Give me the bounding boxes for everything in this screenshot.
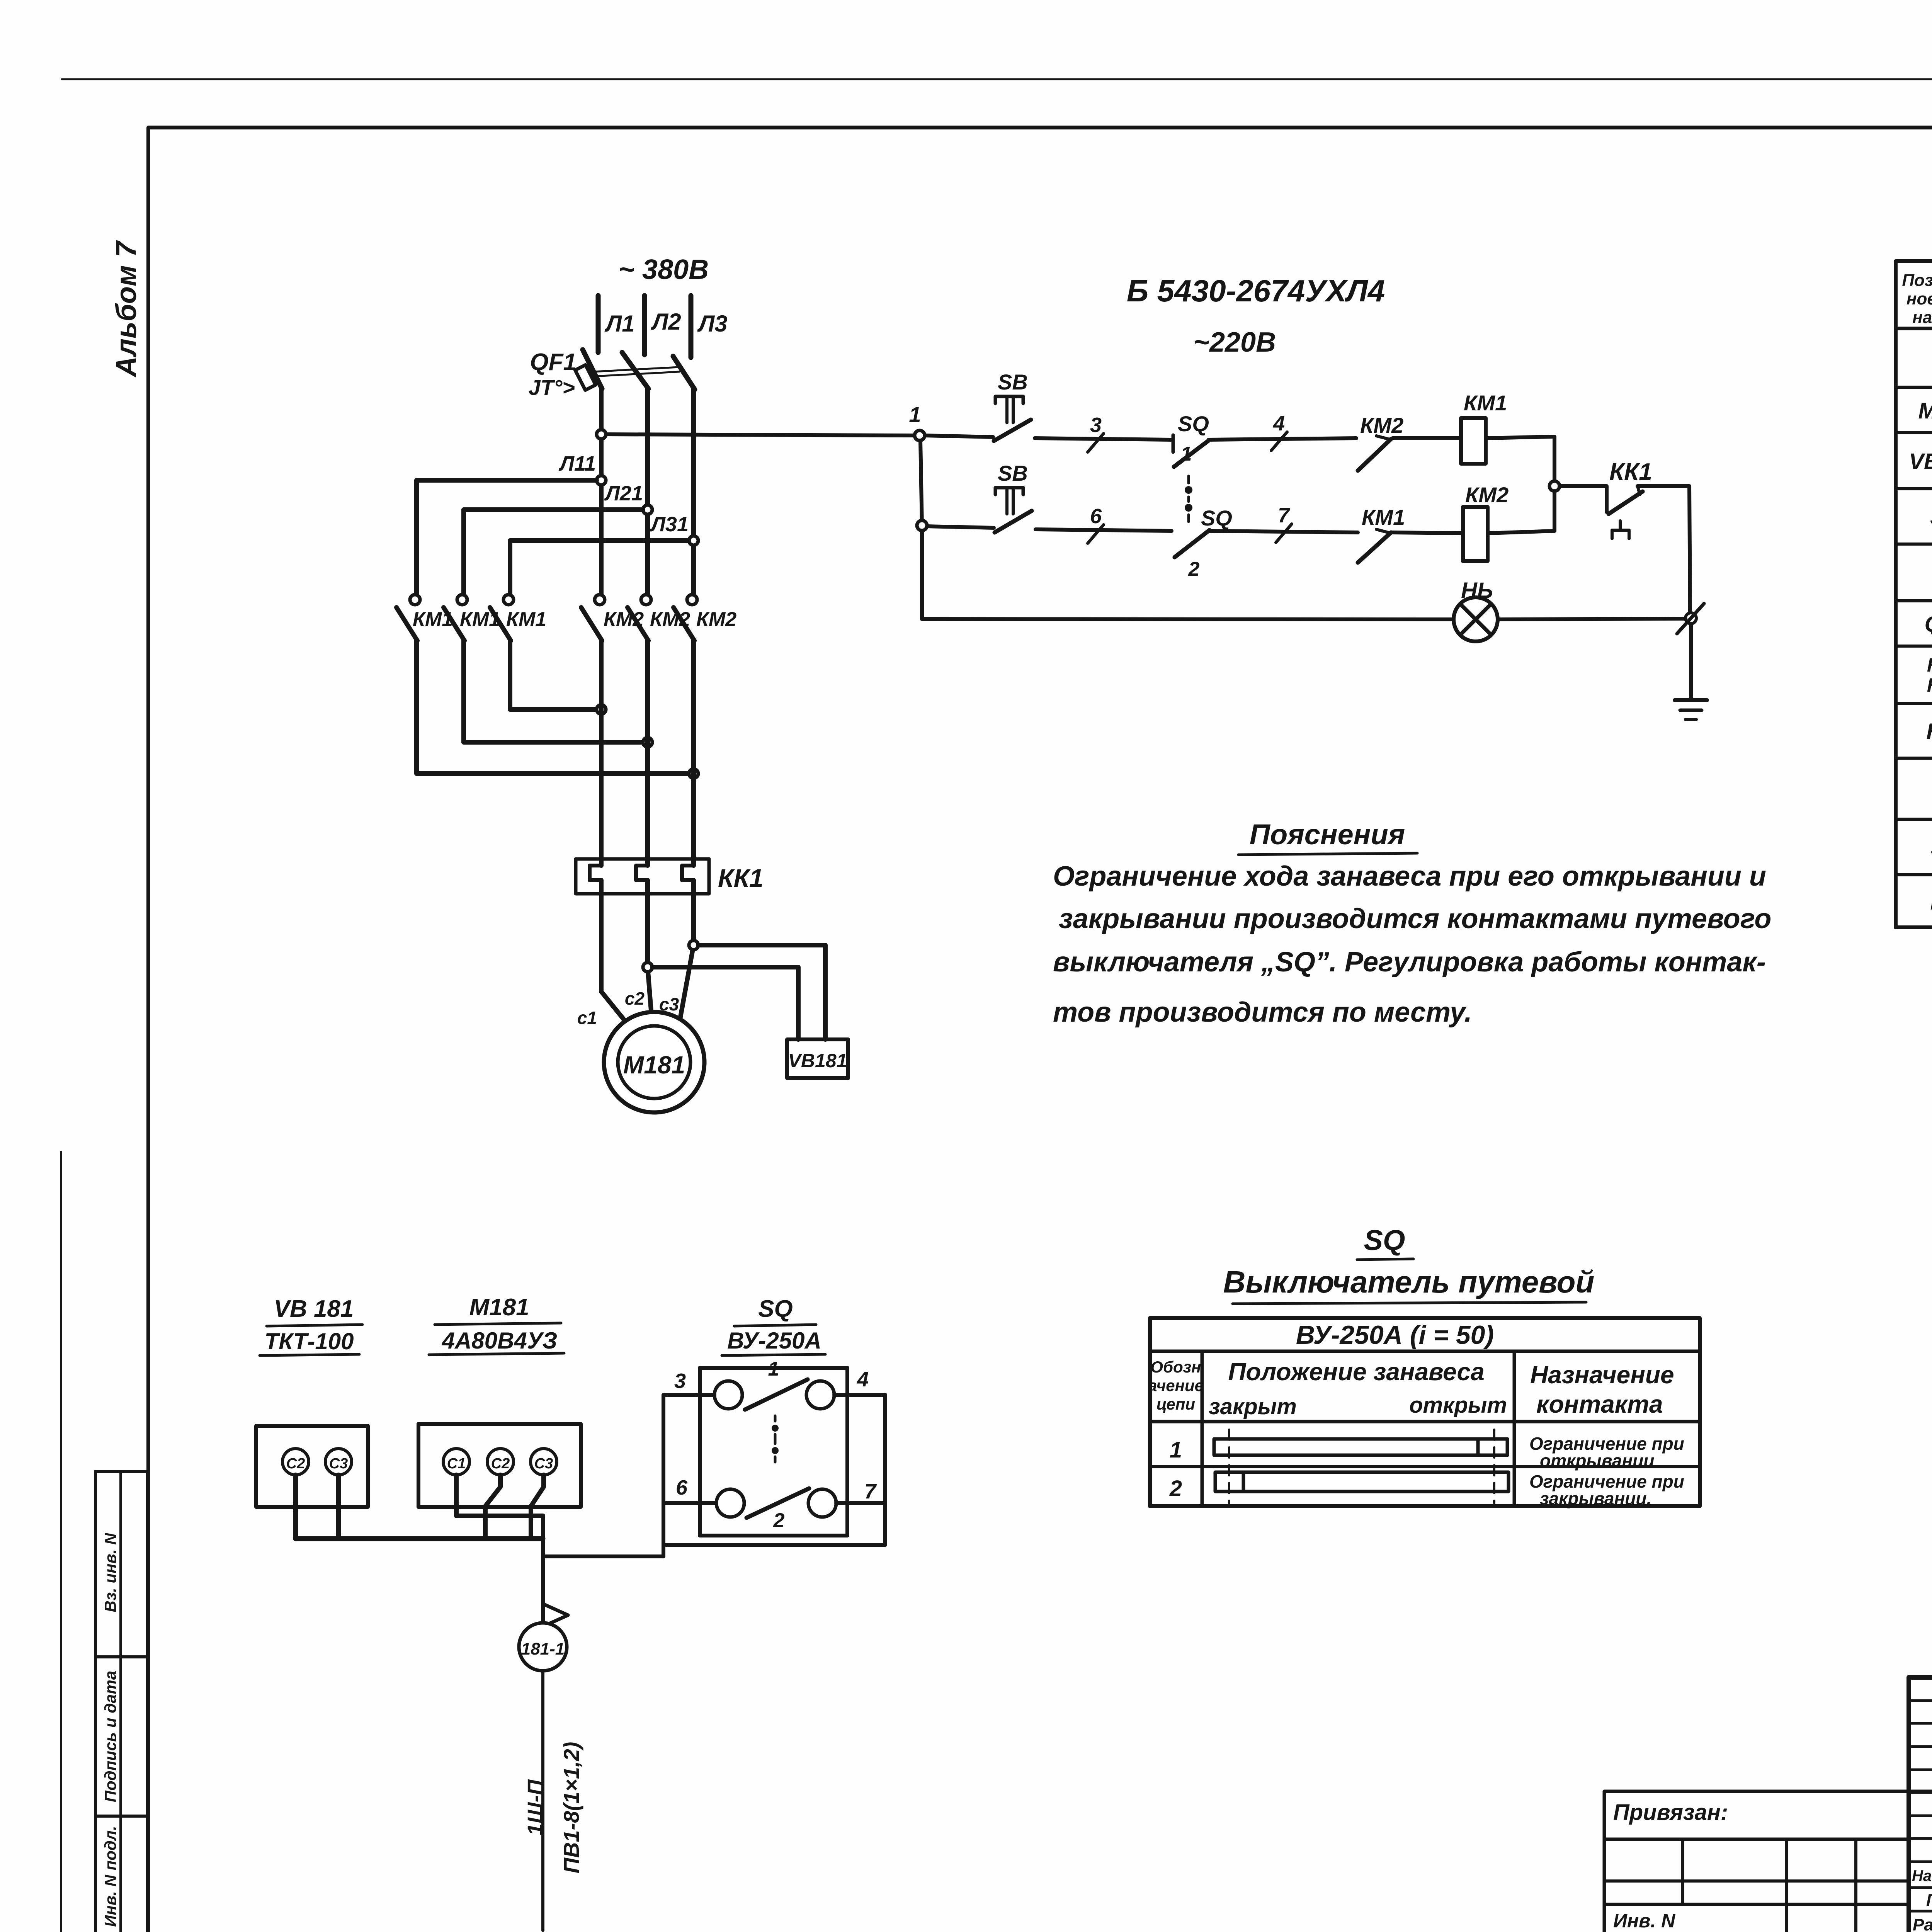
wire brake bus xyxy=(296,1536,543,1541)
wire to control node 1 xyxy=(606,434,915,435)
node on phase 1 to control circuit xyxy=(597,430,606,439)
circuit breaker QF1 pole 1 xyxy=(583,350,602,389)
point 7 slash xyxy=(1276,524,1292,543)
terminal C1 motor xyxy=(443,1449,469,1475)
element table header separator xyxy=(1896,327,1932,330)
svg-text:с2: с2 xyxy=(625,988,645,1009)
svg-text:КМ1: КМ1 xyxy=(413,608,453,631)
control lower node xyxy=(917,520,927,531)
SQ contact box outer loop bottom xyxy=(663,1543,885,1547)
SQ table column line left xyxy=(1201,1351,1204,1506)
point 3 slash xyxy=(1088,434,1104,452)
paper edge top rule xyxy=(62,78,1932,80)
svg-text:Вз. инв. N: Вз. инв. N xyxy=(101,1532,119,1612)
SQ stub 6 xyxy=(663,1501,716,1505)
svg-text:КМ2: КМ2 xyxy=(1927,674,1932,696)
wire main cable vertical xyxy=(541,1516,545,1623)
wire phase 2 vertical xyxy=(645,388,650,595)
paper edge left xyxy=(60,1151,62,1932)
ground symbol xyxy=(1675,698,1707,702)
svg-text:М181: М181 xyxy=(469,1294,529,1321)
SQ contact box outer loop right xyxy=(883,1395,887,1545)
svg-text:VB181: VB181 xyxy=(788,1050,847,1071)
SQ box mechanical link xyxy=(774,1416,777,1421)
circuit breaker QF1 pole 2 xyxy=(622,352,648,389)
SQ table outer frame xyxy=(1150,1318,1700,1506)
lamp rail wire right xyxy=(1498,619,1685,619)
svg-text:С2: С2 xyxy=(491,1456,510,1472)
SQ cam bar row2 xyxy=(1215,1472,1509,1492)
svg-text:КМ2: КМ2 xyxy=(696,608,736,631)
wire phase 1 vertical xyxy=(599,388,604,595)
phase stub Л1 xyxy=(596,296,601,352)
wire motor lead 2 xyxy=(648,880,652,1025)
SQ stub 3 xyxy=(663,1393,714,1397)
cable direction arrow xyxy=(544,1604,568,1615)
wire motor C2 xyxy=(485,1475,500,1537)
element table outer frame xyxy=(1896,261,1932,927)
SQ terminal top right xyxy=(806,1381,834,1409)
svg-text:~220В: ~220В xyxy=(1193,327,1276,358)
svg-text:SQ: SQ xyxy=(758,1296,793,1322)
svg-text:JТ°>: JТ°> xyxy=(529,375,575,400)
svg-text:КМ1: КМ1 xyxy=(460,608,500,631)
svg-text:Л11: Л11 xyxy=(558,452,596,475)
wire brake C2 down xyxy=(293,1475,298,1539)
node Л31 xyxy=(689,536,698,545)
wire brake C3 down xyxy=(336,1475,341,1539)
svg-text:открывании: открывании xyxy=(1540,1451,1654,1471)
attachment box Привязан xyxy=(1604,1791,1932,1839)
wire motor lead 3 xyxy=(679,880,694,1023)
SQ table row divider xyxy=(1150,1465,1700,1468)
svg-text:начение: начение xyxy=(1912,308,1932,327)
svg-text:С3: С3 xyxy=(534,1456,553,1472)
brake terminal box VB181 xyxy=(256,1426,368,1507)
inventory grid xyxy=(1604,1838,1909,1841)
motor M181 outer circle xyxy=(604,1012,704,1112)
wire lower node to SB2 xyxy=(927,526,994,528)
svg-text:Л21: Л21 xyxy=(604,482,643,505)
SQ mechanical link xyxy=(1187,476,1190,483)
svg-text:VB 181: VB 181 xyxy=(1909,449,1932,474)
wire SQ1 to point 4 xyxy=(1209,438,1356,440)
svg-text:SQ: SQ xyxy=(1178,412,1209,436)
svg-text:1: 1 xyxy=(1181,443,1192,465)
svg-text:ТКТ-100: ТКТ-100 xyxy=(264,1328,354,1354)
svg-text:Подпись и дата: Подпись и дата xyxy=(101,1671,119,1802)
SB bottom contact blade xyxy=(995,511,1032,532)
svg-text:Привязан:: Привязан: xyxy=(1613,1800,1728,1825)
svg-text:181-1: 181-1 xyxy=(521,1639,565,1658)
svg-text:С1: С1 xyxy=(447,1456,466,1472)
phase stub Л3 xyxy=(689,296,694,357)
SQ arm contact 2 xyxy=(747,1488,809,1518)
svg-text:Назначение: Назначение xyxy=(1530,1361,1674,1389)
contactor pole KM1 b xyxy=(457,595,467,605)
circuit breaker QF1 pole 3 xyxy=(673,356,695,389)
wire SB to point 3 xyxy=(1035,438,1171,440)
svg-text:ПВ1-8(1×1,2): ПВ1-8(1×1,2) xyxy=(559,1742,583,1874)
svg-text:4А80В4УЗ: 4А80В4УЗ xyxy=(442,1328,558,1354)
title block outer frame xyxy=(1909,1677,1932,1932)
SQ contact box xyxy=(700,1368,847,1536)
svg-text:цепи: цепи xyxy=(1156,1395,1195,1413)
node brake tap phase 2 xyxy=(643,963,652,972)
wire SQ2 to point 7 xyxy=(1209,531,1358,532)
SQ cam dashed guide right xyxy=(1493,1430,1495,1503)
electromagnetic brake VB181 box xyxy=(787,1039,848,1078)
push button SB top xyxy=(995,396,1023,403)
svg-text:VB 181: VB 181 xyxy=(274,1296,354,1322)
wire ground vertical xyxy=(1689,624,1693,700)
svg-text:контакта: контакта xyxy=(1536,1390,1663,1418)
wire Л11 branch xyxy=(417,480,597,595)
wire KK1 to ground branch xyxy=(1638,486,1690,618)
wire to brake VB181 left xyxy=(652,967,798,1039)
svg-text:КМ1: КМ1 xyxy=(506,608,546,631)
svg-text:закрывании производится конт: закрывании производится контактами путев… xyxy=(1059,903,1771,934)
svg-text:QF1: QF1 xyxy=(530,349,577,376)
svg-text:КМ2: КМ2 xyxy=(1465,483,1509,507)
svg-text:SQ: SQ xyxy=(1930,505,1932,530)
wire junction to KK1 contact xyxy=(1560,486,1607,512)
wire KM2 contact to KM1 coil xyxy=(1393,436,1461,440)
terminal C3 brake xyxy=(325,1449,352,1475)
wire motor C3 xyxy=(531,1475,544,1537)
svg-text:Обозн: Обозн xyxy=(1150,1358,1201,1376)
control node 1 xyxy=(915,430,925,440)
svg-text:SQ: SQ xyxy=(1364,1224,1405,1256)
svg-text:1: 1 xyxy=(909,402,921,427)
element table row lines xyxy=(1896,386,1932,389)
svg-text:2: 2 xyxy=(773,1509,785,1532)
QF1 linkage bar xyxy=(593,367,679,372)
svg-text:КМ1: КМ1 xyxy=(1464,391,1507,415)
svg-text:Пояснения: Пояснения xyxy=(1250,818,1405,850)
contactor pole KM2 b xyxy=(641,595,651,605)
wire KM1 coil to junction xyxy=(1486,437,1554,481)
node Л21 xyxy=(643,505,652,514)
svg-text:выключателя „SQ”. Регулировка: выключателя „SQ”. Регулировка работы кон… xyxy=(1053,947,1766,978)
svg-text:тов производится по месту.: тов производится по месту. xyxy=(1053,997,1472,1028)
signature grid xyxy=(1909,1699,1932,1702)
limit switch SQ contact 1 xyxy=(1172,435,1175,452)
svg-text:4: 4 xyxy=(857,1368,869,1391)
wire KM1 pole b output xyxy=(464,641,643,742)
svg-text:с1: с1 xyxy=(577,1008,597,1028)
svg-text:7: 7 xyxy=(1278,504,1291,527)
SQ terminal bottom left xyxy=(716,1489,744,1517)
lamp rail wire xyxy=(922,619,1454,619)
svg-text:Нач.отд.: Нач.отд. xyxy=(1912,1867,1932,1884)
svg-text:~ 380В: ~ 380В xyxy=(618,254,709,285)
wire to brake VB181 right xyxy=(698,945,825,1039)
wire cable below marker xyxy=(541,1671,544,1930)
svg-text:КМ2: КМ2 xyxy=(604,608,644,631)
wire SB2 to point 6 xyxy=(1036,529,1172,531)
wire cable to SQ box xyxy=(543,1554,663,1558)
node brake tap phase 3 xyxy=(689,940,698,950)
svg-text:Разраб.: Разраб. xyxy=(1913,1915,1932,1932)
svg-text:ВУ-250А: ВУ-250А xyxy=(727,1328,821,1354)
svg-text:КК1: КК1 xyxy=(1609,459,1652,485)
svg-text:закрыт: закрыт xyxy=(1209,1394,1297,1419)
phase stub Л2 xyxy=(642,296,647,355)
svg-text:SB: SB xyxy=(998,461,1028,485)
KK1 heater element c xyxy=(682,866,694,880)
control junction node xyxy=(1549,481,1560,491)
signal lamp HL xyxy=(1454,597,1498,641)
wire KM1 pole a output xyxy=(417,641,689,774)
svg-text:М181: М181 xyxy=(1918,398,1932,423)
motor terminal box M181 xyxy=(418,1424,581,1507)
SQ table column line right xyxy=(1513,1351,1516,1506)
wire motor C1 xyxy=(456,1475,543,1516)
contactor pole KM2 a xyxy=(595,595,605,605)
SQ arm contact 1 xyxy=(745,1379,808,1410)
node at phase1 crossover xyxy=(597,705,606,714)
SQ cam bar row1 xyxy=(1214,1439,1507,1455)
terminal C3 motor xyxy=(531,1449,557,1475)
contactor pole KM2 c xyxy=(687,595,697,605)
svg-text:КМ1: КМ1 xyxy=(1362,505,1405,529)
KM2 NC contact top branch xyxy=(1358,439,1391,471)
svg-text:С3: С3 xyxy=(329,1456,348,1472)
svg-text:Ограничение хода занавеса при: Ограничение хода занавеса при его открыв… xyxy=(1053,861,1766,892)
wire Л21 branch xyxy=(464,510,643,595)
svg-text:КМ2: КМ2 xyxy=(650,608,690,631)
svg-text:Л31: Л31 xyxy=(650,513,689,536)
svg-text:Выключатель путевой: Выключатель путевой xyxy=(1223,1265,1595,1299)
point 4 slash xyxy=(1271,432,1287,451)
terminal C2 brake xyxy=(282,1449,309,1475)
wire phase 2 down to KK1 xyxy=(645,641,650,866)
svg-text:ГИП: ГИП xyxy=(1926,1891,1932,1910)
push button SB bottom xyxy=(995,488,1023,495)
KK1 thermal symbol xyxy=(1619,521,1622,530)
SQ contact box outer loop left xyxy=(662,1395,665,1556)
svg-text:1: 1 xyxy=(768,1358,779,1380)
contactor pole KM1 c xyxy=(503,595,514,605)
wire lower node down to lamp rail xyxy=(920,531,924,619)
svg-text:ачение: ачение xyxy=(1148,1376,1204,1395)
svg-text:открыт: открыт xyxy=(1409,1393,1507,1418)
wire motor lead 1 xyxy=(601,880,629,1026)
wire node1 to SB xyxy=(925,435,993,437)
svg-text:КК1: КК1 xyxy=(718,864,764,892)
cable marker circle 181-1 xyxy=(519,1623,567,1671)
svg-text:6: 6 xyxy=(1090,505,1102,528)
svg-text:2: 2 xyxy=(1188,558,1200,580)
svg-text:КМ1: КМ1 xyxy=(1927,654,1932,676)
svg-text:Положение занавеса: Положение занавеса xyxy=(1228,1358,1484,1386)
thermal relay KK1 NC contact xyxy=(1609,492,1643,514)
wire phase 3 vertical xyxy=(691,389,696,595)
svg-text:SB: SB xyxy=(998,370,1028,394)
svg-text:4: 4 xyxy=(1273,412,1285,435)
svg-text:С2: С2 xyxy=(286,1456,305,1472)
svg-text:ВУ-250А (i = 50): ВУ-250А (i = 50) xyxy=(1296,1320,1494,1350)
svg-text:Л1: Л1 xyxy=(604,311,635,337)
svg-text:Альбом 7: Альбом 7 xyxy=(110,240,142,378)
wire KM1 contact to KM2 coil xyxy=(1393,532,1463,533)
wire KM2 coil to junction xyxy=(1488,491,1554,533)
wire phase 3 down to KK1 xyxy=(691,641,696,866)
SQ table header bottom line xyxy=(1150,1420,1700,1423)
svg-text:SQ: SQ xyxy=(1201,506,1232,530)
svg-text:закрывании.: закрывании. xyxy=(1540,1488,1651,1509)
wire KM1 pole c output xyxy=(510,641,597,709)
SQ stub 4 xyxy=(834,1393,885,1397)
node Л11 xyxy=(597,476,606,485)
wire phase 1 down to KK1 xyxy=(599,641,604,866)
wire node1 to lower node xyxy=(920,440,922,526)
svg-text:3: 3 xyxy=(674,1369,686,1393)
svg-text:7: 7 xyxy=(864,1480,877,1503)
svg-text:3: 3 xyxy=(1090,413,1102,437)
svg-text:Л2: Л2 xyxy=(651,309,681,335)
QF1 thermal element box xyxy=(575,365,595,390)
SQ terminal bottom right xyxy=(808,1489,836,1517)
SQ stub 7 xyxy=(836,1501,885,1505)
motor M181 inner circle xyxy=(618,1026,690,1099)
svg-text:1Ш-П: 1Ш-П xyxy=(523,1779,547,1836)
SQ table title band line xyxy=(1150,1350,1700,1353)
point 6 slash xyxy=(1088,525,1104,543)
svg-text:Инв. N: Инв. N xyxy=(1613,1910,1675,1932)
terminal C2 motor xyxy=(487,1449,514,1475)
limit switch SQ contact 2 xyxy=(1175,530,1209,557)
svg-text:М181: М181 xyxy=(623,1051,685,1079)
svg-text:КК1: КК1 xyxy=(1926,719,1932,744)
node at phase3 crossover xyxy=(689,769,698,778)
svg-text:6: 6 xyxy=(676,1476,688,1499)
SB top contact blade xyxy=(994,420,1031,441)
KM1 NC contact bottom branch xyxy=(1358,532,1391,563)
wire Л31 branch xyxy=(510,541,689,595)
left margin stamp strip xyxy=(95,1471,148,1932)
thermal relay KK1 box xyxy=(576,859,709,894)
contactor pole KM1 a xyxy=(410,595,420,605)
contactor coil KM1 xyxy=(1461,418,1486,464)
svg-text:QF1: QF1 xyxy=(1925,612,1932,637)
SQ cam dashed guide left xyxy=(1228,1430,1230,1503)
svg-text:КМ2: КМ2 xyxy=(1360,413,1403,437)
SQ terminal top left xyxy=(714,1381,742,1409)
svg-text:Л3: Л3 xyxy=(697,311,728,337)
svg-text:Б 5430-2674УХЛ4: Б 5430-2674УХЛ4 xyxy=(1127,274,1385,308)
svg-text:ное обоз-: ное обоз- xyxy=(1906,289,1932,308)
svg-text:2: 2 xyxy=(1169,1476,1182,1501)
KK1 heater element b xyxy=(636,866,648,880)
contactor coil KM2 xyxy=(1463,507,1488,561)
svg-text:НЬ: НЬ xyxy=(1930,889,1932,915)
rail junction circle slash xyxy=(1685,613,1696,624)
svg-text:НЬ: НЬ xyxy=(1461,578,1493,603)
svg-text:Инв. N подл.: Инв. N подл. xyxy=(101,1826,119,1927)
node at phase2 crossover xyxy=(643,738,652,747)
svg-text:Позицион-: Позицион- xyxy=(1902,271,1932,290)
svg-text:1: 1 xyxy=(1170,1437,1182,1463)
KK1 heater element a xyxy=(590,866,601,880)
